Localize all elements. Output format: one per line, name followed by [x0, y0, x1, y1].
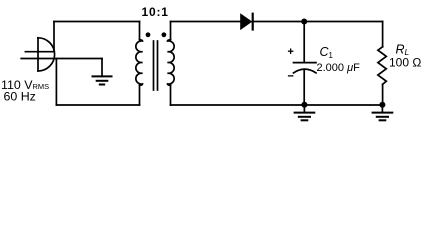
- plus polarity mark: [288, 48, 294, 54]
- resistor RL zigzag: [378, 47, 386, 85]
- plug prong 1 (hot): [25, 51, 54, 53]
- junction node (resistor bottom rail): [379, 102, 385, 108]
- plug prong 2 / neutral wire: [21, 58, 102, 60]
- ground (left): [93, 59, 112, 85]
- wire: neutral tap down: [55, 59, 57, 106]
- transformer polarity dot (secondary): [162, 32, 167, 37]
- wire: top rail left: [54, 21, 140, 23]
- transformer polarity dot (primary): [146, 32, 151, 37]
- wire: bottom rail primary: [56, 104, 139, 106]
- wire: resistor top drop: [382, 22, 384, 47]
- minus polarity mark: [288, 75, 294, 77]
- transformer T1 primary winding: [136, 22, 143, 106]
- wire: capacitor top lead: [303, 22, 305, 63]
- wire: top rail right to diode: [171, 21, 241, 23]
- svg-text:60 Hz: 60 Hz: [4, 89, 36, 103]
- wire: resistor bottom lead: [382, 84, 384, 105]
- AC plug source body: [38, 38, 55, 71]
- transformer core: [154, 41, 158, 90]
- svg-text:100 Ω: 100 Ω: [389, 56, 421, 70]
- svg-text:2.000 μF: 2.000 μF: [317, 62, 361, 74]
- svg-text:10:1: 10:1: [142, 5, 169, 19]
- wire: bottom rail secondary: [171, 104, 383, 106]
- wire: diode to resistor corner: [253, 21, 383, 23]
- ground (below capacitor): [295, 105, 315, 120]
- diode D1: [240, 13, 253, 31]
- transformer secondary winding: [168, 22, 175, 106]
- wire: capacitor bottom lead: [303, 69, 305, 105]
- ground (below resistor): [373, 105, 393, 120]
- junction node (cap bottom rail): [301, 102, 307, 108]
- wire: hot riser: [53, 22, 55, 52]
- capacitor C1 plates: [294, 63, 317, 73]
- junction node (diode-cap-resistor top): [301, 19, 307, 25]
